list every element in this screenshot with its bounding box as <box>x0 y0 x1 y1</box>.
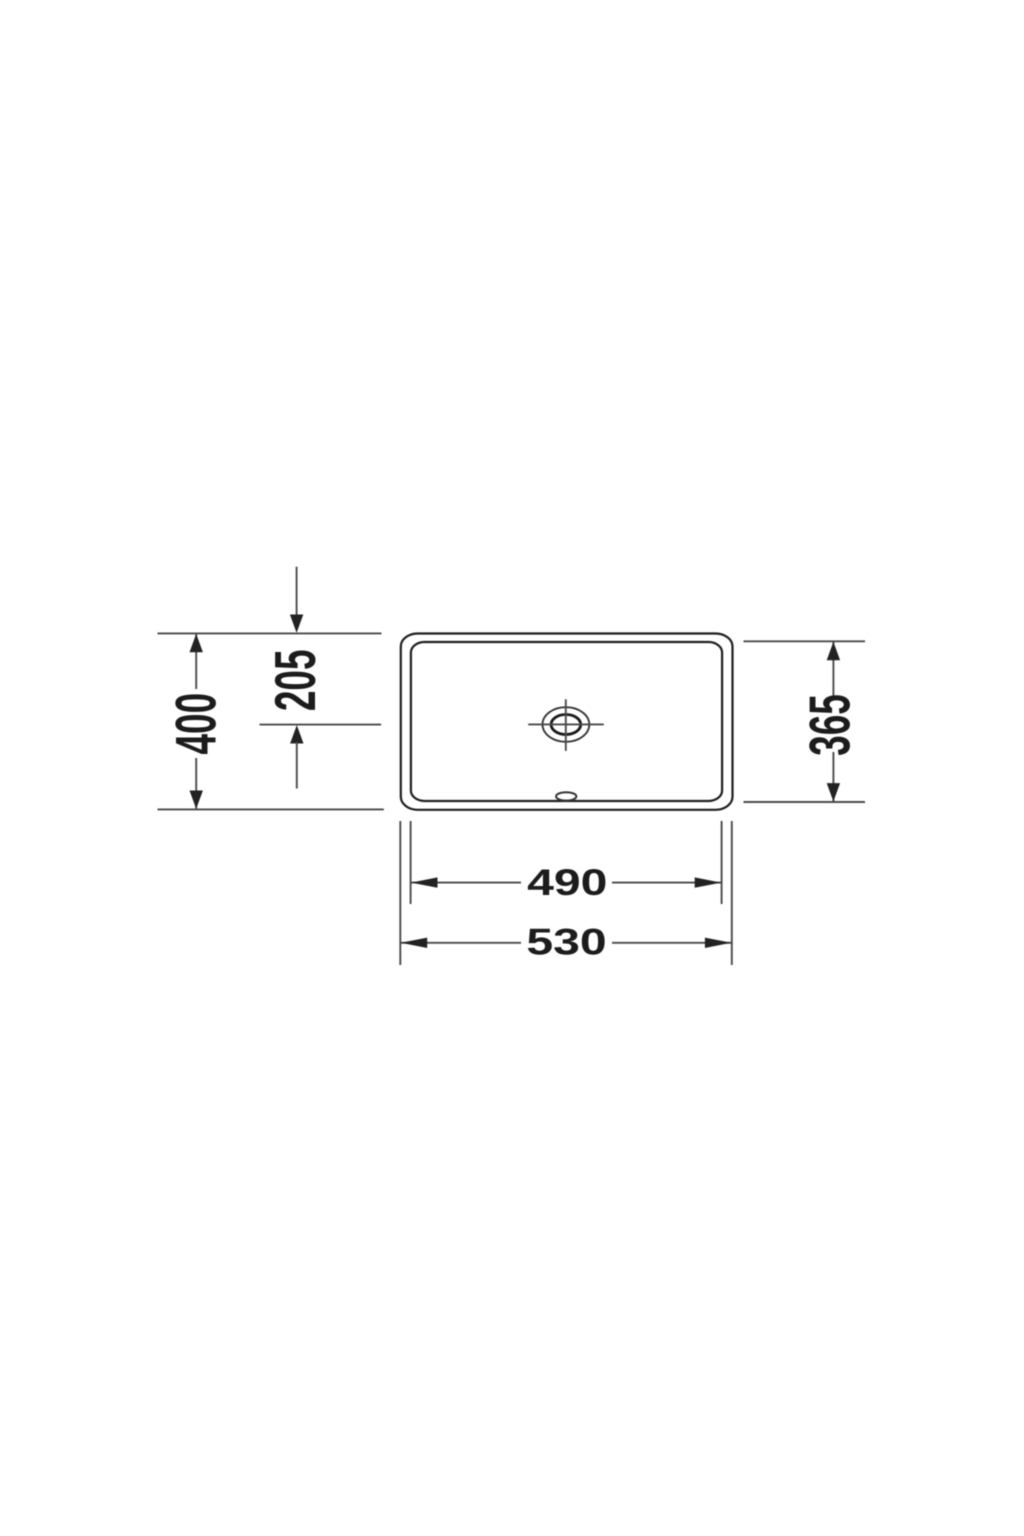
svg-text:400: 400 <box>164 693 228 755</box>
dimension 400 line upper segment <box>195 633 197 689</box>
dimension 365 lower segment <box>832 752 834 802</box>
dimension 205 lower pointer line <box>296 742 298 789</box>
svg-text:365: 365 <box>798 694 862 756</box>
svg-text:490: 490 <box>527 862 607 903</box>
arrowhead 400 down <box>190 791 203 809</box>
wire: top datum extension line (basin top) <box>158 632 382 634</box>
drain crosshair horizontal <box>528 723 604 725</box>
wire: lower inner-right extension line <box>721 821 723 904</box>
dimension 490 right segment <box>612 882 722 884</box>
drain crosshair vertical <box>565 699 567 751</box>
arrowhead 530 left <box>401 938 427 948</box>
svg-text:530: 530 <box>526 922 606 963</box>
arrowhead 490 left <box>411 877 437 887</box>
wire: drain centre extension line (205 datum) <box>260 724 382 726</box>
arrowhead 365 up <box>827 642 840 660</box>
arrowhead 205 down onto top datum <box>290 615 303 633</box>
wire: right top extension line (inner rim top) <box>744 640 866 642</box>
basin outer rim <box>401 634 733 810</box>
dimension 400 line lower segment <box>195 758 197 809</box>
dimension 490 left segment <box>411 882 521 884</box>
dimension 530 right segment <box>612 942 732 944</box>
wire: bottom datum extension line (basin bottom) <box>158 808 384 810</box>
overflow hole <box>556 792 576 800</box>
wire: lower inner-left extension line <box>410 821 412 904</box>
arrowhead 365 down <box>827 783 840 801</box>
drain inner ring <box>551 715 581 735</box>
basin inner rim <box>411 642 722 801</box>
dimension 205 top pointer line <box>296 567 298 615</box>
wire: right bottom extension line (inner rim bottom) <box>744 801 866 803</box>
arrowhead 205 up onto centre line <box>290 725 303 743</box>
wire: lower outer-left extension line <box>399 821 401 965</box>
wire: lower outer-right extension line <box>731 821 733 965</box>
dimension 530 left segment <box>400 942 521 944</box>
arrowhead 400 up <box>190 634 203 652</box>
dimension 365 upper segment <box>832 641 834 698</box>
svg-text:205: 205 <box>264 649 328 711</box>
drain outer ring <box>543 707 590 742</box>
arrowhead 490 right <box>695 877 721 887</box>
arrowhead 530 right <box>705 938 731 948</box>
